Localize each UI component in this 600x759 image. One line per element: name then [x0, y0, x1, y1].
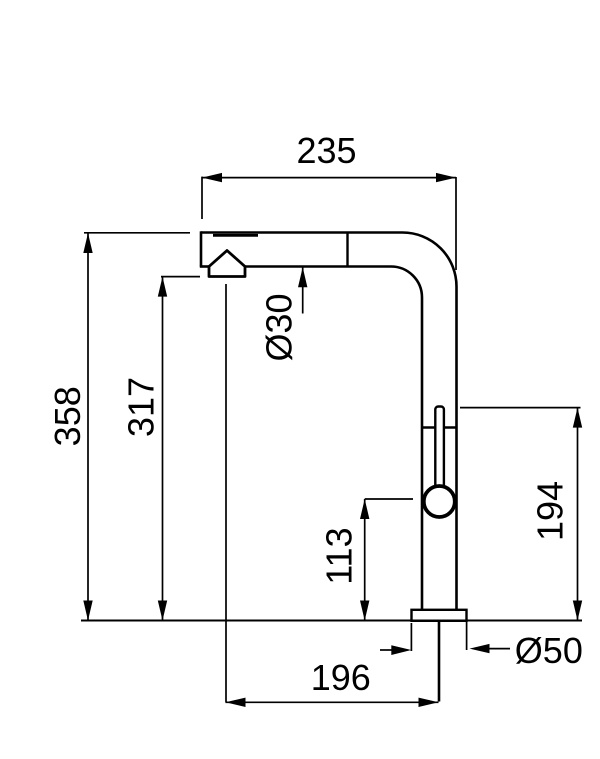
dimension 113 top arrow	[360, 499, 369, 519]
dimension 317 line	[162, 277, 164, 621]
svg-text:358: 358	[47, 386, 88, 446]
body joint line	[422, 426, 457, 428]
dimension 317 bottom arrow	[158, 601, 167, 621]
dimension 358 extension line	[84, 232, 190, 234]
dimension 113 extension line	[365, 498, 413, 500]
dimension 317 extension line	[161, 276, 200, 278]
dimension 317 top arrow	[158, 277, 167, 297]
dimension 196 line	[226, 701, 439, 703]
svg-text:196: 196	[311, 657, 371, 698]
handle ball circle	[424, 486, 455, 517]
diameter 50 left arrow	[380, 649, 393, 651]
dimension 235 line	[202, 177, 456, 179]
dimension 235 right extension line	[455, 177, 457, 270]
pull-out spray head (pentagon)	[209, 251, 245, 277]
svg-text:113: 113	[319, 527, 360, 584]
dimension 196 left arrow	[226, 698, 246, 707]
dimension 358 line	[87, 233, 89, 621]
svg-text:194: 194	[529, 481, 570, 541]
svg-text:235: 235	[296, 130, 356, 171]
spout section divider line	[346, 233, 348, 267]
faucet spout outer outline (top edge, outer bend, right body edge)	[201, 233, 457, 611]
dimension 113 bottom arrow	[360, 601, 369, 621]
dimension 194 top arrow	[573, 408, 582, 428]
dimension 196 right arrow	[419, 698, 439, 707]
spout head left edge	[200, 231, 203, 266]
dimension 194 line	[577, 408, 579, 621]
diameter 50 right extension line	[466, 621, 468, 650]
dimension 194 extension line	[460, 407, 581, 409]
diameter 30 arrow	[302, 267, 304, 313]
diameter 50 left extension line	[410, 623, 412, 651]
dimension 235 right arrow	[436, 173, 456, 182]
svg-text:Ø50: Ø50	[515, 630, 583, 671]
dimension 235 left extension line	[201, 177, 203, 219]
spout head step line (double top edge)	[213, 234, 258, 237]
supply pipe below base	[438, 621, 441, 702]
base flange	[412, 610, 467, 621]
diameter 50 right arrow	[489, 648, 510, 650]
svg-text:Ø30: Ø30	[258, 293, 299, 361]
dimension 358 top arrow	[83, 233, 92, 253]
svg-text:317: 317	[121, 377, 162, 437]
dimension 235 left arrow	[202, 173, 222, 182]
dimension 113 line	[364, 499, 366, 621]
spout bottom short segment left of spray head	[200, 265, 210, 268]
handle lever	[435, 407, 444, 489]
dimension 196 left extension centerline	[225, 284, 227, 702]
faucet spout inner outline (bottom edge, inner bend, left body edge)	[245, 267, 422, 611]
dimension 194 bottom arrow	[573, 601, 582, 621]
mounting surface line	[81, 620, 582, 622]
dimension 358 bottom arrow	[83, 601, 92, 621]
